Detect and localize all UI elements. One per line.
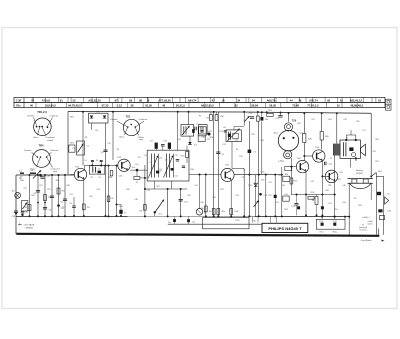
svg-text:C14: C14 bbox=[119, 175, 122, 177]
wire: vertical x213.7 bbox=[213, 112, 215, 216]
wire: vertical x336.8 bbox=[336, 113, 338, 143]
svg-text:C1x: C1x bbox=[174, 176, 177, 178]
svg-text:C2A: C2A bbox=[46, 174, 51, 177]
battery connector bbox=[349, 183, 371, 189]
volume potentiometer R21 bbox=[154, 211, 156, 213]
resistor R41 on rail bbox=[267, 113, 273, 116]
AGC arrow top bbox=[245, 116, 250, 122]
pot arrow lower bbox=[254, 201, 259, 208]
resistor R16 bbox=[215, 115, 218, 121]
resistor R20 bbox=[186, 146, 188, 152]
svg-text:A77,93,50: A77,93,50 bbox=[158, 99, 171, 103]
wire: vertical x188 bbox=[188, 112, 190, 125]
svg-text:R55: R55 bbox=[356, 121, 359, 123]
svg-text:Emitter: Emitter bbox=[28, 114, 35, 117]
svg-text:C57: C57 bbox=[362, 130, 365, 132]
svg-text:34: 34 bbox=[237, 99, 240, 103]
driver transformer winding bbox=[333, 144, 335, 156]
voltage note text bbox=[19, 224, 22, 226]
IF transformer S1 box bbox=[89, 165, 105, 174]
pickup connections box PU1 bbox=[203, 218, 250, 229]
wire: vertical x304.3 bbox=[303, 113, 305, 133]
svg-text:46: 46 bbox=[162, 104, 165, 108]
wire: battery left drop bbox=[348, 183, 350, 235]
svg-text:C46: C46 bbox=[342, 185, 345, 187]
table right end box bbox=[385, 99, 391, 110]
svg-text:TS6: TS6 bbox=[292, 119, 297, 122]
svg-text:R9: R9 bbox=[117, 149, 119, 151]
svg-text:R31: R31 bbox=[220, 189, 223, 191]
wire: left vertical from rail bbox=[67, 112, 69, 176]
svg-text:R27: R27 bbox=[268, 195, 271, 197]
svg-text:S1: S1 bbox=[96, 160, 98, 162]
electrolytic C7b above box bbox=[168, 143, 171, 149]
wire: vertical x113 bbox=[112, 112, 114, 160]
svg-text:R12: R12 bbox=[208, 131, 211, 133]
electrolytic C33a bbox=[321, 206, 324, 209]
wire: drop x167.8b bbox=[174, 216, 176, 224]
svg-text:25: 25 bbox=[73, 99, 76, 103]
wire: vertical x334.5 bbox=[334, 156, 336, 217]
electrolytic C17a above box bbox=[155, 143, 158, 149]
wire: RF vertical 1 bbox=[29, 175, 31, 216]
resistor R45 bbox=[217, 209, 220, 215]
svg-text:61: 61 bbox=[60, 99, 63, 103]
wire: right column a bbox=[375, 173, 377, 235]
resistor R2 bbox=[44, 195, 47, 201]
resistor R40 bbox=[320, 132, 323, 141]
electrolytic C44 bbox=[378, 209, 382, 212]
wire: vertical x249.4 bbox=[248, 121, 250, 216]
diode X4 bbox=[189, 136, 191, 142]
svg-text:Collector: Collector bbox=[50, 149, 59, 152]
svg-text:47: 47 bbox=[212, 99, 215, 103]
svg-text:A82,62,12: A82,62,12 bbox=[350, 99, 363, 103]
resistor R6 bbox=[204, 206, 207, 212]
wire: vertical x275.2 bbox=[274, 175, 276, 217]
svg-text:S5: S5 bbox=[236, 149, 238, 151]
wire: RF vertical 4 bbox=[51, 175, 53, 216]
svg-text:78: 78 bbox=[298, 99, 301, 103]
svg-text:C37: C37 bbox=[158, 169, 161, 171]
svg-text:R56: R56 bbox=[375, 139, 378, 141]
svg-text:C39: C39 bbox=[95, 130, 98, 132]
wire: drop x188.5b bbox=[188, 216, 190, 224]
svg-text:R28: R28 bbox=[284, 209, 287, 211]
svg-text:R5s: R5s bbox=[16, 105, 21, 108]
svg-text:82: 82 bbox=[327, 99, 330, 103]
svg-text:C50: C50 bbox=[110, 198, 113, 200]
svg-text:69,52,85,5: 69,52,85,5 bbox=[201, 104, 214, 108]
svg-text:82: 82 bbox=[235, 104, 238, 108]
svg-text:R11: R11 bbox=[144, 155, 147, 157]
wire: vertical x244.2 lower bbox=[243, 169, 245, 217]
capacitor C20 bbox=[216, 151, 220, 153]
transistor TS5 IF amp bbox=[221, 168, 234, 181]
svg-text:R47: R47 bbox=[89, 196, 92, 198]
wire: RF vertical 5 bbox=[58, 175, 60, 216]
svg-text:4,7: 4,7 bbox=[124, 212, 127, 214]
resistor R24 box bbox=[283, 176, 290, 181]
fuse X5 bbox=[377, 192, 381, 195]
capacitor C42 bbox=[324, 162, 326, 166]
loudspeaker bbox=[361, 144, 366, 156]
svg-text:C9: C9 bbox=[84, 160, 86, 162]
wire: TS2 emitter down bbox=[83, 180, 85, 217]
capacitor C6 bbox=[63, 198, 67, 200]
wire: verticals to bottom right section bbox=[305, 195, 307, 216]
capacitor C25 bbox=[294, 203, 298, 205]
resistor R18 bbox=[256, 116, 259, 121]
trimmer box left bbox=[22, 201, 28, 212]
transistor TS2 bbox=[74, 168, 86, 180]
svg-text:R7b: R7b bbox=[210, 137, 213, 139]
svg-text:A70,74: A70,74 bbox=[309, 99, 318, 103]
svg-text:TR4: TR4 bbox=[38, 143, 44, 147]
wire: vertical x265.8 bbox=[265, 175, 267, 217]
wire: right column top link bbox=[376, 175, 383, 177]
svg-text:Overload: Overload bbox=[46, 136, 56, 139]
transistor TS8 output bbox=[325, 170, 338, 183]
svg-text:C24: C24 bbox=[222, 144, 225, 146]
wire: box drops to y189 bbox=[154, 181, 156, 189]
svg-text:C22: C22 bbox=[207, 139, 210, 141]
svg-text:Battery: Battery bbox=[356, 169, 364, 172]
svg-text:Emitter: Emitter bbox=[111, 118, 118, 121]
svg-text:MW: MW bbox=[20, 180, 24, 182]
svg-text:18,8,80,5: 18,8,80,5 bbox=[45, 104, 57, 108]
title box PHILIPS bbox=[262, 223, 308, 232]
wire: vertical x167.6 bbox=[167, 189, 169, 216]
wire: feedback y194.5 bbox=[291, 194, 336, 196]
svg-text:Emitter: Emitter bbox=[25, 149, 32, 152]
wire: TS7 emitter bbox=[321, 161, 323, 195]
svg-text:9V(B2): 9V(B2) bbox=[356, 173, 363, 175]
wire: vertical x255.7 bbox=[255, 175, 257, 217]
svg-text:R57: R57 bbox=[375, 161, 378, 163]
wire: vertical x258.7 bbox=[258, 121, 260, 216]
svg-text:=VOLTAGE: =VOLTAGE bbox=[24, 224, 35, 227]
wire: RF vertical 2 bbox=[37, 175, 39, 216]
svg-text:Collector: Collector bbox=[139, 118, 148, 121]
wire: transformer top link bbox=[345, 135, 347, 140]
capacitor C23 bbox=[259, 193, 262, 196]
wire: TS6 bottom stem bbox=[290, 158, 292, 167]
svg-text:2,8: 2,8 bbox=[98, 169, 101, 171]
svg-text:C52: C52 bbox=[39, 185, 42, 187]
svg-text:C48: C48 bbox=[134, 199, 137, 201]
wire: aerial drop bbox=[15, 175, 17, 234]
svg-text:C32: C32 bbox=[241, 177, 244, 179]
capacitor C3 bbox=[36, 190, 40, 192]
svg-text:TR1,2,3: TR1,2,3 bbox=[37, 110, 47, 114]
svg-text:C33: C33 bbox=[235, 195, 238, 197]
on/off switch SK1 bbox=[371, 173, 376, 177]
svg-text:C50: C50 bbox=[235, 140, 238, 142]
svg-text:C61: C61 bbox=[328, 203, 331, 205]
wire: bus end bbox=[377, 229, 379, 236]
svg-text:WIRING: WIRING bbox=[26, 227, 34, 229]
svg-text:S6: S6 bbox=[355, 160, 357, 162]
wire: vertical x105.5 bbox=[105, 123, 107, 216]
svg-text:R34: R34 bbox=[325, 190, 328, 192]
svg-text:58,36: 58,36 bbox=[269, 104, 276, 108]
svg-text:28: 28 bbox=[131, 104, 134, 108]
aerial socket symbol bbox=[15, 193, 21, 199]
wire: T2 bottom to battery bbox=[350, 158, 352, 167]
wire: T1 left lead bbox=[91, 123, 93, 130]
svg-text:R13: R13 bbox=[219, 131, 222, 133]
svg-text:C31: C31 bbox=[275, 202, 278, 204]
svg-text:R51: R51 bbox=[47, 189, 50, 191]
svg-text:C28: C28 bbox=[260, 140, 263, 142]
svg-text:C10: C10 bbox=[159, 158, 162, 160]
resistor R7a bbox=[107, 196, 110, 202]
wire: TS7 base link bbox=[304, 155, 313, 157]
svg-text:C53: C53 bbox=[23, 188, 26, 190]
wire: detector out y174.5 bbox=[189, 174, 222, 176]
wire: RF vertical 3 bbox=[44, 175, 46, 216]
electrolytic C5 bbox=[57, 204, 60, 207]
oscillator coil box S4 bbox=[226, 130, 241, 142]
svg-text:C60: C60 bbox=[342, 202, 345, 204]
capacitor C26 bbox=[250, 116, 254, 118]
resistor R17 bbox=[210, 115, 213, 121]
switch SK3 box bbox=[69, 145, 75, 152]
svg-text:C8: C8 bbox=[90, 177, 92, 179]
svg-text:R48: R48 bbox=[66, 185, 69, 187]
svg-text:spot: spot bbox=[139, 138, 144, 141]
svg-text:R14: R14 bbox=[239, 156, 242, 158]
wire: vertical x144.9 bbox=[144, 165, 146, 216]
diode X1 bbox=[248, 150, 252, 153]
svg-text:R10: R10 bbox=[132, 167, 135, 169]
wire: TS2 base stub bbox=[70, 174, 74, 176]
electrolytic C14 bbox=[136, 169, 139, 172]
earphone jack socket bbox=[196, 209, 203, 216]
detector shield box S2 bbox=[147, 150, 189, 181]
svg-text:67,33: 67,33 bbox=[102, 104, 109, 108]
svg-text:C56: C56 bbox=[343, 119, 346, 121]
wire: vertical x116.5 bbox=[116, 166, 118, 217]
svg-text:Base: Base bbox=[120, 137, 126, 139]
svg-text:C49: C49 bbox=[96, 189, 99, 191]
svg-text:o-4Ω(+-): o-4Ω(+-) bbox=[362, 217, 370, 219]
coil L1 bbox=[20, 172, 24, 174]
top supply rail wire bbox=[68, 111, 240, 114]
svg-text:R37: R37 bbox=[337, 179, 340, 181]
wire: TS6 top stem bbox=[288, 113, 290, 122]
wire: vertical x232 below osc bbox=[231, 142, 233, 169]
wire: vertical x321.7 bbox=[321, 113, 323, 131]
svg-text:48,89,48,5: 48,89,48,5 bbox=[350, 104, 363, 108]
electrolytic C19b bbox=[173, 219, 176, 222]
capacitor C2A bbox=[40, 176, 44, 178]
wire: AF line y174.6 bbox=[234, 174, 282, 176]
wire: R26 to TS4 bbox=[303, 143, 305, 161]
svg-text:R49: R49 bbox=[56, 180, 59, 182]
svg-text:40: 40 bbox=[30, 104, 33, 108]
svg-text:C4x: C4x bbox=[253, 220, 256, 222]
svg-text:94,78,45,5: 94,78,45,5 bbox=[68, 104, 81, 108]
resistor R3 bbox=[57, 188, 60, 194]
svg-text:Base: Base bbox=[34, 137, 40, 139]
wire: vertical x177.7 bbox=[177, 112, 179, 150]
svg-text:98: 98 bbox=[139, 99, 142, 103]
diode X6 bbox=[254, 183, 258, 186]
svg-text:R24: R24 bbox=[278, 175, 281, 177]
svg-text:C54: C54 bbox=[60, 208, 63, 210]
wire: vertical x199.5 jack bbox=[199, 175, 201, 209]
svg-text:157: 157 bbox=[20, 177, 23, 179]
wire: TS5 emitter down bbox=[230, 180, 232, 216]
svg-text:shield: shield bbox=[47, 140, 53, 142]
svg-text:C1x: C1x bbox=[196, 124, 200, 126]
svg-text:R43: R43 bbox=[119, 206, 122, 208]
svg-text:R24: R24 bbox=[285, 174, 288, 176]
svg-text:R8: R8 bbox=[85, 137, 87, 139]
transistor TS4 bbox=[296, 160, 308, 172]
svg-text:16: 16 bbox=[340, 99, 343, 103]
wire: right column b bbox=[383, 176, 385, 235]
svg-text:C-3R: C-3R bbox=[16, 100, 22, 103]
RF input rail wire bbox=[16, 174, 74, 176]
resistor R46 bbox=[230, 209, 233, 215]
capacitor C40 bbox=[72, 205, 76, 207]
resistor R26 bbox=[303, 134, 306, 143]
svg-text:R50: R50 bbox=[31, 195, 34, 197]
svg-text:C1b: C1b bbox=[201, 137, 204, 139]
wire: x291 drop bbox=[290, 167, 292, 195]
svg-text:C36: C36 bbox=[200, 202, 203, 204]
svg-text:54: 54 bbox=[252, 99, 255, 103]
common negative rail wire bbox=[16, 215, 349, 217]
earphone jack arrow bbox=[385, 197, 389, 204]
wire: vertical x108.5 bbox=[108, 166, 110, 217]
svg-text:terminal: terminal bbox=[360, 228, 367, 231]
capacitor C41 bbox=[43, 207, 47, 209]
svg-text:C35: C35 bbox=[212, 197, 215, 199]
svg-text:C12: C12 bbox=[174, 155, 177, 157]
svg-text:R42: R42 bbox=[126, 189, 129, 191]
svg-text:R53: R53 bbox=[297, 123, 300, 125]
electrolytic C30 bbox=[274, 195, 277, 198]
coil L2 bbox=[30, 172, 36, 174]
wire: title drops bbox=[243, 216, 245, 217]
transformer T1 box bbox=[89, 113, 109, 123]
svg-text:C55: C55 bbox=[311, 119, 314, 121]
svg-text:A94,74: A94,74 bbox=[188, 99, 197, 103]
svg-text:C34: C34 bbox=[194, 185, 197, 187]
capacitor C4 bbox=[50, 195, 54, 197]
svg-text:R30: R30 bbox=[190, 169, 193, 171]
wire: vertical x218.3 bbox=[217, 112, 219, 216]
svg-text:C4,5: C4,5 bbox=[319, 221, 323, 223]
component location table bbox=[14, 97, 385, 102]
oscillator trimmer box C7 bbox=[77, 141, 85, 155]
variable capacitor C1 arrow bbox=[33, 170, 41, 178]
svg-text:R58: R58 bbox=[358, 205, 361, 207]
wire: TS3 emitter stub bbox=[120, 205, 122, 217]
capacitor C38 bbox=[15, 213, 17, 215]
svg-text:5,09: 5,09 bbox=[333, 221, 337, 223]
small shield box left bbox=[198, 127, 206, 136]
capacitor C27 bbox=[278, 115, 282, 117]
wire: IF link y165.5 bbox=[84, 165, 118, 167]
svg-text:R29: R29 bbox=[248, 185, 251, 187]
wire: TS4 emitter down bbox=[305, 172, 307, 195]
wire: vertical x261.8 bbox=[261, 122, 263, 175]
svg-text:C43: C43 bbox=[310, 181, 313, 183]
capacitor C8 bbox=[103, 149, 107, 151]
wire: x345 drop bbox=[344, 217, 346, 220]
electrolytic C7b bbox=[187, 219, 190, 222]
svg-text:C29: C29 bbox=[268, 182, 271, 184]
svg-text:PHILIPS N4G40 T: PHILIPS N4G40 T bbox=[268, 226, 302, 231]
wire: y189 link bbox=[145, 188, 187, 190]
chassis bus (thick) bbox=[16, 234, 378, 236]
svg-text:10: 10 bbox=[337, 104, 340, 108]
svg-text:77,43,5,5: 77,43,5,5 bbox=[307, 104, 319, 108]
svg-text:Collector: Collector bbox=[50, 114, 59, 117]
svg-text:18: 18 bbox=[222, 99, 225, 103]
svg-text:81,36: 81,36 bbox=[145, 104, 152, 108]
svg-text:C31: C31 bbox=[284, 194, 287, 196]
svg-text:R19: R19 bbox=[251, 134, 254, 136]
resistor R20a bbox=[136, 170, 138, 176]
svg-text:spot: spot bbox=[53, 170, 58, 173]
svg-text:1,2: 1,2 bbox=[149, 162, 152, 164]
secondary bottom wire bbox=[168, 223, 262, 225]
svg-text:C59: C59 bbox=[353, 198, 356, 200]
wire: vertical x180.7 bbox=[180, 189, 182, 216]
svg-text:3,9: 3,9 bbox=[165, 160, 168, 162]
wire: RF vertical 6 bbox=[64, 175, 66, 216]
svg-text:67: 67 bbox=[115, 99, 118, 103]
lamp box bbox=[379, 216, 384, 220]
output transformer T2 bbox=[340, 140, 361, 158]
wire: vertical x244.2 bbox=[243, 112, 245, 126]
svg-text:C7x: C7x bbox=[192, 222, 195, 224]
network C31 box bbox=[283, 196, 289, 201]
svg-text:58,84: 58,84 bbox=[251, 104, 258, 108]
resistor R5 bbox=[82, 204, 85, 210]
diode X2 in T1 bbox=[90, 116, 94, 119]
svg-text:A78,61: A78,61 bbox=[42, 99, 51, 103]
resistor R44 bbox=[212, 209, 215, 215]
svg-text:20,51,5: 20,51,5 bbox=[176, 104, 185, 108]
svg-text:R54: R54 bbox=[328, 119, 331, 121]
svg-text:C58: C58 bbox=[372, 151, 375, 153]
svg-text:3,12: 3,12 bbox=[117, 104, 123, 108]
svg-text:R33: R33 bbox=[145, 178, 148, 180]
wire: base link to TS4 bbox=[291, 166, 296, 168]
svg-text:C18: C18 bbox=[146, 190, 149, 192]
wire: R40 to TS5b bbox=[321, 140, 323, 150]
wire: rail corner down right bbox=[370, 113, 372, 178]
svg-text:C1x: C1x bbox=[168, 222, 171, 224]
svg-text:C12: C12 bbox=[137, 157, 140, 159]
wire: battery right drop bbox=[370, 183, 372, 200]
diode X3 in T1 bbox=[103, 116, 107, 119]
svg-text:C30: C30 bbox=[281, 185, 284, 187]
svg-text:C51: C51 bbox=[69, 194, 72, 196]
svg-text:C9: C9 bbox=[98, 177, 100, 179]
svg-text:C45: C45 bbox=[339, 172, 342, 174]
electrolytic C32a bbox=[297, 206, 300, 209]
svg-text:R23: R23 bbox=[264, 174, 267, 176]
svg-text:C29: C29 bbox=[261, 179, 264, 181]
